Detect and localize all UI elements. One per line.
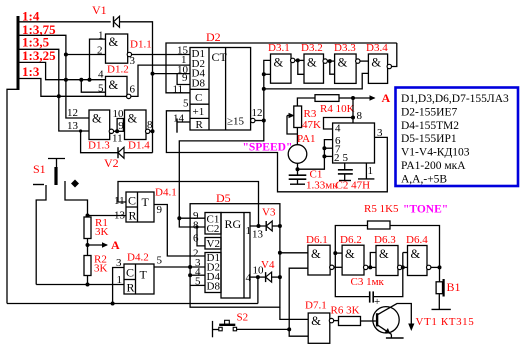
svg-text:D1.3: D1.3 (88, 140, 110, 152)
output bubble D6.3 (398, 265, 402, 269)
svg-text:T: T (140, 268, 148, 282)
output bubble D1.4 pin 8 (146, 129, 150, 133)
wire - S2 to D7.1 lower input (237, 328, 290, 330)
gate D6.1 (308, 245, 330, 275)
output bubble D3.1 (291, 58, 295, 62)
node - V1 riser / D4-pin wire junction (151, 72, 155, 76)
svg-text:&: & (307, 56, 317, 70)
arrow to A (88, 244, 108, 246)
wire - R1 to R2 (87, 239, 89, 256)
wire - bottom rail riser up to V4 output node (257, 277, 259, 303)
svg-text:1: 1 (368, 165, 374, 177)
svg-text:&: & (92, 112, 102, 126)
svg-text:CT: CT (212, 50, 228, 64)
svg-text:≥15: ≥15 (227, 116, 245, 128)
svg-text:1:3,25: 1:3,25 (22, 48, 56, 63)
wire - V2 cathode to pin13 net riser (81, 131, 118, 153)
wire - V2 anode to V1 riser (124, 152, 153, 154)
input bus (thick vertical line) (17, 16, 20, 90)
node - V1 riser / D1.4 output junction (151, 129, 155, 133)
svg-text:14: 14 (173, 113, 185, 125)
svg-text:4: 4 (98, 69, 104, 81)
gate D6.3 (376, 246, 398, 276)
wire - to D4.1 R pin (13) (88, 215, 127, 217)
svg-text:6: 6 (130, 84, 136, 96)
node (296, 58, 300, 62)
node - pin4 wire / pin5 riser junction (79, 78, 83, 82)
wire - D3.4 out feedback up to top rail (392, 43, 397, 67)
svg-text:D8: D8 (207, 281, 221, 293)
node - C1 top node (296, 167, 300, 171)
diode V2 (117, 147, 119, 158)
gate D3.3 (335, 54, 357, 83)
VT1 collector (378, 304, 412, 326)
output bubble D1.3 pin 11 (109, 129, 113, 133)
capacitor C1 (297, 174, 299, 176)
svg-text:&: & (274, 56, 284, 70)
svg-text:C2 47Н: C2 47Н (336, 180, 371, 192)
svg-text:4: 4 (335, 123, 341, 135)
wire - 1:3,5 tap and riser to pin 13 of D1.3 (20, 49, 90, 131)
node (368, 265, 372, 269)
wire - pin 2 of D1.1 (66, 54, 106, 56)
svg-text:C2: C2 (207, 223, 220, 235)
node - D4 input junction (188, 273, 192, 277)
svg-text:1: 1 (117, 274, 123, 286)
svg-text:D8: D8 (192, 77, 206, 89)
wire - R6 to VT1 base (361, 320, 376, 322)
wire - D4.2 output 5 to D5 D inputs (154, 266, 205, 268)
wire - S1 right pole to R1 top (65, 181, 88, 217)
node - C1 pin junction (177, 216, 181, 220)
push button S2 (212, 321, 214, 337)
wire - R pin (14) stub with bar (177, 121, 190, 123)
wire - bottom wire to D4.2 R pin (1) (36, 284, 124, 286)
output bubble D7.1 (329, 318, 333, 322)
gate D3.2 (304, 54, 324, 83)
svg-text:2: 2 (334, 152, 340, 164)
svg-text:D3.2: D3.2 (301, 42, 323, 54)
svg-text:1: 1 (246, 225, 252, 237)
node - A node (351, 96, 355, 100)
output bubble D6.2 (364, 265, 368, 269)
resistor R6 (339, 317, 361, 326)
wire - 1:3,25 tap to D1.1 pin 4 wire (20, 62, 106, 79)
pin cells (205, 213, 221, 235)
wire - D8 input (190, 284, 205, 286)
wire - S1 left pole down the left rail 2 (36, 185, 46, 285)
gate D1.4 (125, 110, 147, 140)
svg-text:C: C (195, 92, 202, 104)
gate D1.3 (89, 110, 110, 140)
node - D6.1 upper input junction (278, 251, 282, 255)
wire - loop to D1.4 pin 10/9 (117, 119, 123, 132)
wire - D8 pin (9) loop (177, 74, 190, 85)
wire - enclosing loop around D5 (190, 204, 280, 308)
svg-text:A: A (111, 238, 120, 252)
wire - C2 to V2 tie (197, 227, 205, 246)
output bubble D1.2 pin 6 (127, 94, 131, 98)
capacitor C2 (344, 163, 346, 170)
svg-text:10: 10 (113, 108, 125, 120)
timer chip (555) box (333, 123, 375, 163)
wire - riser to D6.3 upper input (370, 253, 376, 268)
svg-text:1: 1 (98, 30, 104, 42)
svg-text:T: T (142, 195, 150, 209)
wire - C1 node to pins 2/6/7 riser (298, 140, 333, 170)
resistor R5 (368, 221, 391, 229)
svg-text:12: 12 (252, 107, 263, 119)
node - S2 net junction (287, 327, 291, 331)
svg-text:9: 9 (157, 204, 163, 216)
svg-text:8: 8 (357, 110, 363, 122)
wire - pin 12 out (255, 120, 264, 122)
wire - R4 to A node (339, 97, 353, 99)
wire - riser to pin 1 of D1.1 (90, 39, 106, 80)
svg-text:5: 5 (183, 98, 189, 110)
svg-text:8: 8 (147, 119, 153, 131)
svg-text:D1.1: D1.1 (130, 39, 152, 51)
output 13 wire and diode V3 (250, 225, 266, 227)
svg-text:V1-V4-КД103: V1-V4-КД103 (401, 147, 470, 159)
svg-text:R4 10K: R4 10K (320, 103, 355, 115)
svg-text:V2: V2 (104, 156, 119, 170)
wire - to D6.1 upper input (280, 252, 308, 254)
svg-text:S1: S1 (33, 162, 46, 176)
wire - riser to D6.4 upper input and down to C3 (403, 252, 408, 254)
svg-text:8: 8 (193, 220, 199, 232)
gate D6.2 (342, 245, 364, 275)
wire - down to D7.1 lower input (289, 329, 308, 336)
wire - D1.3 out to D1.4 input (114, 130, 125, 132)
svg-text:D2-155ИЕ7: D2-155ИЕ7 (401, 106, 457, 118)
wire - down to timer pin 8 (352, 98, 354, 123)
svg-text:R: R (196, 119, 204, 131)
svg-text:D4.1: D4.1 (155, 187, 177, 199)
wire - V1 to riser down to D1.4 output node (120, 22, 153, 153)
svg-text:3K: 3K (95, 226, 109, 238)
svg-text:S2: S2 (237, 312, 249, 324)
svg-text:&: & (311, 314, 321, 328)
svg-text:D1,D3,D6,D7-155ЛА3: D1,D3,D6,D7-155ЛА3 (401, 93, 509, 105)
wire - D3.3 out to D3.4 upper input (360, 60, 368, 62)
wire - lower rail to D3.4 lower input (264, 73, 369, 89)
wire - D3.2 out to D3.3 (327, 60, 334, 62)
resistor R2 (84, 256, 91, 276)
svg-text:D6.2: D6.2 (340, 234, 362, 246)
svg-text:D2: D2 (206, 30, 221, 44)
svg-text:&: & (379, 247, 389, 261)
node - D2 input junction on loop edge (188, 265, 192, 269)
svg-text:&: & (311, 247, 321, 261)
output bubble D6.4 (427, 265, 431, 269)
wire - pin 8/pin 4 tie (324, 118, 354, 130)
flip-flop D4.2 (124, 264, 154, 294)
svg-text:9: 9 (118, 120, 124, 132)
svg-text:RG: RG (225, 217, 242, 231)
output bubble D2 >=15 (pin 12) (251, 118, 255, 122)
wire - D4.1 C pin (11) from D5 output net (118, 182, 259, 227)
svg-text:C: C (128, 194, 136, 208)
wire - D3.1 out to D3.2 (295, 59, 304, 61)
svg-text:3: 3 (377, 127, 383, 139)
svg-text:2: 2 (97, 45, 103, 57)
wire - bus bottom to left rail (7, 89, 18, 303)
svg-text:5: 5 (157, 255, 163, 267)
potentiometer R3 (294, 106, 302, 128)
node - riser/pin2 wire junction (64, 53, 68, 57)
wire - R5 left to C3 left / D6.2 upper input riser (335, 226, 369, 297)
node - R2 bottom junction (86, 283, 90, 287)
svg-text:"TONE": "TONE" (403, 204, 448, 216)
svg-text:&: & (411, 247, 421, 261)
node - 1:3,5 riser / 1:3 wire junction (57, 94, 61, 98)
svg-text:47K: 47K (302, 119, 321, 131)
node - D3.1 lower input junction (262, 72, 266, 76)
svg-text:&: & (128, 112, 138, 126)
wire - +1 pin (5) to SPEED net (166, 111, 387, 192)
svg-text:R: R (129, 209, 137, 223)
gate D6.4 (408, 246, 428, 276)
svg-text:D4-155ТМ2: D4-155ТМ2 (401, 120, 459, 132)
output bubble D6.1 (330, 265, 334, 269)
transistor VT1 (373, 307, 399, 333)
wire - Vcc rail to R4 (297, 98, 315, 106)
flip-flop D4.1 (126, 192, 154, 222)
node (401, 265, 405, 269)
svg-text:+1: +1 (193, 106, 205, 118)
svg-text:&: & (109, 35, 119, 49)
wire - D1.1 out to D2 input D1 (pin 15) (132, 54, 190, 56)
svg-text:1:3: 1:3 (22, 64, 40, 79)
wire - D1.4 out to V1 riser (150, 130, 153, 132)
node (328, 59, 332, 63)
output bubble D1.1 pin 3 (127, 52, 131, 56)
svg-text:&: & (109, 78, 119, 92)
wire - R5 right to D6.4 output riser (390, 226, 440, 268)
svg-text:C3 1мк: C3 1мк (351, 276, 385, 288)
parts list box (396, 88, 519, 187)
gate D3.1 (271, 54, 292, 83)
svg-text:&: & (371, 56, 381, 70)
node - pin4 wire / pin1 riser junction (88, 78, 92, 82)
svg-text:R: R (127, 281, 135, 295)
svg-text:V1: V1 (92, 3, 107, 17)
svg-text:&: & (345, 247, 355, 261)
svg-text:D6.3: D6.3 (374, 234, 396, 246)
wire - D4.1 output 9 to D5 D1 input (154, 205, 205, 257)
svg-text:V2: V2 (207, 238, 220, 250)
svg-text:А,А,-+5В: А,А,-+5В (401, 173, 447, 185)
output bubble D3.2 (323, 59, 327, 63)
svg-text:5: 5 (343, 152, 349, 164)
wire - 1:3 tap down to D1.2 lower edge line (20, 79, 107, 97)
svg-text:1.33мк: 1.33мк (306, 180, 338, 192)
node - D6.2 upper input junction (333, 251, 337, 255)
node - D1.3 out junction (115, 129, 119, 133)
node - D6.4 out junction (438, 265, 442, 269)
speaker B1 (439, 267, 441, 281)
wire - D6.3 out to D6.4 (402, 266, 408, 268)
wire - top rail from D3.4 feedback down to C pin (11) (166, 43, 397, 93)
wire - D6.2 out to D6.3 (368, 266, 376, 268)
svg-text:"SPEED": "SPEED" (243, 142, 293, 154)
capacitor C3 (369, 291, 371, 302)
wire - D1.2 out riser to D2 input D2 (pin 1) (131, 65, 190, 96)
S1 moving contact diamond (71, 180, 79, 188)
C2 ground bar (339, 180, 351, 182)
svg-text:R6 3K: R6 3K (331, 305, 360, 317)
meter PA1 (288, 145, 307, 164)
svg-text:PA1-200 мкА: PA1-200 мкА (401, 160, 466, 172)
svg-text:D1.2: D1.2 (107, 64, 129, 76)
svg-text:D4.2: D4.2 (127, 252, 149, 264)
resistor R1 (84, 217, 91, 239)
node - pin 2 junction (322, 154, 326, 158)
wire - loop to D3.3 lower input (330, 61, 335, 74)
svg-text:D3.3: D3.3 (334, 42, 356, 54)
svg-text:C: C (126, 266, 134, 280)
svg-text:11: 11 (114, 195, 125, 207)
svg-text:VT1 КТ315: VT1 КТ315 (416, 316, 475, 328)
wire - 1:4 tap (20, 21, 111, 23)
svg-text:V3: V3 (262, 207, 276, 219)
resistor R4 (315, 95, 339, 102)
output bubble D3.4 (387, 64, 391, 68)
output 4 wire and diode V4 (250, 276, 266, 278)
svg-text:D6.4: D6.4 (406, 234, 428, 246)
svg-text:11: 11 (173, 84, 184, 96)
svg-text:B1: B1 (447, 280, 461, 294)
svg-text:PA1: PA1 (297, 133, 316, 145)
svg-text:D5: D5 (216, 191, 231, 205)
node - pin12 junction (262, 119, 266, 123)
svg-text:+: + (374, 296, 380, 308)
svg-text:11: 11 (112, 133, 123, 145)
R3 wiper arrow (287, 115, 294, 117)
svg-text:D7.1: D7.1 (305, 300, 327, 312)
svg-text:12: 12 (67, 107, 78, 119)
svg-text:D3.4: D3.4 (366, 42, 388, 54)
node - riser/pin4 wire junction (64, 78, 68, 82)
switch S1 (48, 158, 65, 160)
wire - riser to D6.1 lower input (289, 268, 308, 329)
diode V1 (113, 16, 115, 27)
node - pin 7 junction (322, 146, 326, 150)
VT1 emitter with arrow (378, 325, 392, 334)
wire - D6.4 out (431, 266, 440, 268)
wire - PA1 bottom to C1 node (297, 163, 299, 175)
svg-text:5: 5 (98, 83, 104, 95)
output bubble D3.3 (356, 59, 360, 63)
svg-text:D5-155ИР1: D5-155ИР1 (401, 133, 457, 145)
C1 ground bar (290, 183, 305, 185)
wire - D4 pin (10) from V1 riser (153, 73, 191, 75)
svg-text:13: 13 (67, 120, 79, 132)
svg-text:D1.4: D1.4 (128, 140, 150, 152)
wire - pin12 riser up to D3.1 inputs (264, 60, 271, 120)
wire - R2 bottom (87, 276, 89, 285)
wire - riser to pin 5 of D1.2 (81, 80, 105, 93)
wire - loop to D3.2 lower input (298, 60, 304, 74)
svg-text:10: 10 (253, 265, 265, 277)
svg-text:3: 3 (130, 55, 136, 67)
arrow to A supply (353, 97, 375, 99)
svg-text:6: 6 (193, 233, 199, 245)
node - lower rail junction (262, 87, 266, 91)
svg-text:13: 13 (114, 210, 126, 222)
wire - bottom common rail (7, 303, 258, 305)
node - divider tap (86, 243, 90, 247)
svg-text:D6.1: D6.1 (306, 234, 328, 246)
timer pin 1 ground (365, 163, 367, 179)
gate D7.1 (308, 313, 330, 343)
wire - D7.1 out to R6 (334, 320, 339, 322)
wire - R3 bottom to PA1 (296, 128, 298, 145)
wire - D6.1 out to D6.2 lower input (334, 266, 342, 268)
gate D1.1 (106, 34, 128, 63)
gate D3.4 (368, 54, 387, 83)
node - R1 top junction (86, 214, 90, 218)
svg-text:13: 13 (252, 229, 264, 241)
node - junction at D4.2 riser on bottom rail (111, 302, 115, 306)
svg-text:D3.1: D3.1 (268, 42, 290, 54)
svg-text:4: 4 (246, 272, 252, 284)
gate D1.2 (106, 76, 128, 96)
svg-text:&: & (338, 56, 348, 70)
wire - pin12 down to D5 clock inputs (179, 121, 263, 228)
wire - V3/V4 node down right edge to D7.1 upper input (280, 307, 308, 319)
main body (221, 213, 250, 299)
svg-text:3K: 3K (94, 263, 108, 275)
wire - D4 input (190, 274, 205, 276)
wire - 1:3,75 tap and riser to pin 12 of D1.3 (20, 35, 90, 118)
wire - to D5 C1 pin (179, 217, 205, 219)
wire - D4.2 C pin (3) from bottom rail riser (113, 268, 124, 304)
svg-text:R5 1K5: R5 1K5 (364, 203, 399, 215)
svg-text:A: A (382, 91, 391, 105)
